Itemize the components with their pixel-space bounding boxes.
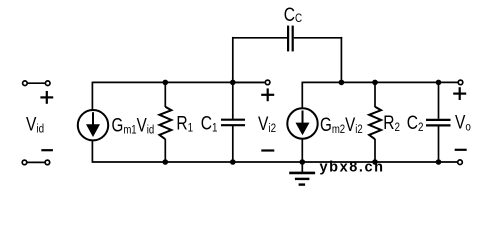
node R2 bottom bbox=[372, 159, 378, 165]
terminal Vo - bbox=[458, 160, 463, 165]
wire input top pair bbox=[25, 82, 48, 84]
wire R1 top stub bbox=[164, 82, 166, 107]
label + (Vo) bbox=[453, 87, 466, 100]
wire R2 top stub bbox=[374, 82, 376, 107]
node ground junction bbox=[300, 159, 306, 165]
node C2 top bbox=[436, 80, 442, 86]
label + (Vi2) bbox=[261, 88, 274, 101]
node CC right bbox=[339, 80, 345, 86]
node R1 top bbox=[163, 80, 169, 86]
wire ground stub bbox=[301, 162, 303, 172]
resistor R1 bbox=[159, 107, 171, 139]
label Vid bbox=[26, 113, 44, 136]
wire Gm1 branch top bbox=[91, 82, 93, 111]
terminal Vo + bbox=[458, 80, 463, 85]
wire CC riser right bbox=[340, 37, 342, 83]
wire C1 top stub bbox=[232, 82, 234, 118]
wire bottom rail bbox=[92, 161, 457, 163]
terminal Vi2 bbox=[265, 80, 270, 85]
wire stage1 top rail bbox=[92, 81, 264, 83]
node speck Vi2 lead bbox=[255, 82, 257, 84]
current source Gm1Vid bbox=[78, 110, 108, 140]
label - (Vi2) bbox=[261, 149, 274, 151]
node speck input bottom bbox=[35, 161, 37, 163]
capacitor C1 bbox=[221, 120, 245, 126]
label + (input) bbox=[40, 91, 53, 104]
wire Gm1 branch bottom bbox=[91, 140, 93, 162]
capacitor C2 bbox=[426, 120, 451, 126]
wire CC riser left bbox=[232, 37, 234, 83]
wire Vi2 terminal lead bbox=[233, 81, 265, 83]
node C1 top bbox=[230, 80, 236, 86]
node R1 bottom bbox=[163, 159, 169, 165]
wire input bottom pair bbox=[25, 161, 48, 163]
label Vi2 bbox=[258, 112, 276, 135]
node C2 bottom bbox=[436, 159, 442, 165]
ground bbox=[289, 173, 315, 185]
label C1 bbox=[201, 112, 218, 135]
label Gm2Vi2 bbox=[320, 114, 363, 137]
current source Gm2Vi2 bbox=[287, 108, 317, 138]
wire stage2 top rail bbox=[302, 81, 457, 83]
label CC bbox=[284, 4, 302, 26]
node C1 bottom bbox=[230, 159, 236, 165]
label R2 bbox=[383, 111, 400, 134]
wire C1 bottom stub bbox=[232, 126, 234, 162]
wire CC top right bbox=[294, 37, 342, 39]
terminal input - (right circle) bbox=[45, 160, 50, 165]
svg-text:ybx8.cn: ybx8.cn bbox=[320, 159, 384, 175]
terminal input + (left circle) bbox=[23, 81, 28, 86]
label Vo bbox=[455, 111, 471, 134]
label Gm1Vid bbox=[112, 114, 155, 137]
wire R1 bottom stub bbox=[164, 139, 166, 162]
resistor R2 bbox=[369, 107, 381, 139]
label - (Vo) bbox=[455, 149, 467, 151]
node R2 top bbox=[372, 80, 378, 86]
label C2 bbox=[407, 111, 424, 134]
capacitor CC bbox=[288, 26, 293, 52]
wire Gm2 branch top bbox=[301, 82, 303, 109]
node speck input top bbox=[36, 82, 38, 84]
wire C2 bottom stub bbox=[438, 126, 440, 162]
wire C2 top stub bbox=[438, 82, 440, 118]
wire CC top left bbox=[232, 37, 287, 39]
wire R2 bottom stub bbox=[374, 139, 376, 162]
label - (input) bbox=[41, 149, 53, 151]
terminal input + (right circle) bbox=[45, 81, 50, 86]
watermark ybx8.cn bbox=[320, 159, 384, 175]
terminal input - (left circle) bbox=[22, 160, 27, 165]
wire Gm2 branch bottom bbox=[301, 139, 303, 163]
label R1 bbox=[176, 112, 193, 135]
